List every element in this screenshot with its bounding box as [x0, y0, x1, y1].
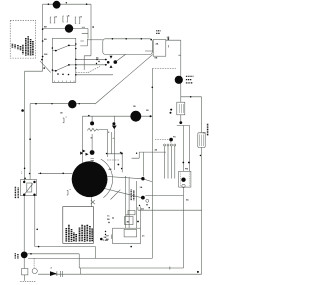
svg-text:1B: 1B	[60, 113, 63, 115]
svg-text:C1: C1	[203, 133, 206, 135]
svg-text:8B: 8B	[155, 58, 158, 60]
svg-text:2A: 2A	[141, 208, 144, 211]
svg-text:5B: 5B	[107, 219, 110, 221]
svg-text:E: E	[56, 17, 58, 19]
svg-text:P4: P4	[173, 136, 176, 139]
svg-text:6B: 6B	[167, 37, 170, 39]
svg-text:1C: 1C	[107, 216, 110, 218]
svg-text:3A: 3A	[140, 186, 143, 189]
svg-text:E: E	[81, 17, 83, 19]
svg-text:PM: PM	[185, 169, 188, 171]
svg-text:1B: 1B	[133, 106, 136, 108]
svg-text:4A: 4A	[155, 149, 158, 152]
svg-text:6A: 6A	[186, 199, 189, 202]
svg-text:S: S	[108, 132, 110, 134]
svg-text:WH: WH	[44, 54, 48, 56]
svg-text:BK: BK	[106, 239, 109, 241]
svg-text:2: 2	[51, 268, 53, 270]
svg-text:HT: HT	[106, 236, 109, 238]
svg-text:BK: BK	[44, 27, 47, 29]
svg-text:E: E	[68, 16, 70, 18]
svg-text:4A: 4A	[156, 43, 159, 46]
svg-text:BU: BU	[44, 39, 47, 41]
svg-text:2C: 2C	[142, 236, 145, 238]
svg-text:3B: 3B	[146, 110, 149, 112]
